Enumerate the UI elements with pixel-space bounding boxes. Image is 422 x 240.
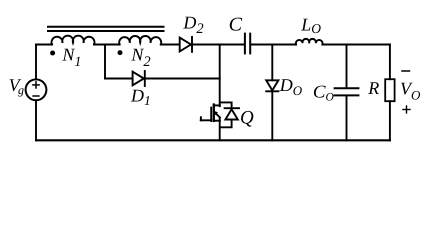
wire D1 to node	[145, 78, 220, 80]
Q gate lead	[201, 119, 212, 121]
wire Lo to right corner	[322, 44, 390, 46]
polarity dot N2	[118, 50, 123, 55]
wire D2 to C	[192, 44, 244, 46]
capacitor C	[244, 34, 246, 54]
wire top-left horizontal	[36, 44, 52, 46]
bottom rail wire	[36, 139, 390, 141]
winding N2	[119, 36, 161, 44]
winding N1	[52, 36, 95, 45]
svg-text:VO: VO	[400, 79, 421, 103]
wire C to Lo	[251, 44, 296, 46]
Q body diode triangle	[225, 109, 237, 119]
diode D1	[133, 72, 144, 86]
svg-text:C: C	[229, 15, 243, 36]
Q source lead	[214, 120, 220, 122]
diode Do	[266, 80, 278, 90]
wire Co branch upper	[346, 45, 348, 88]
inductor Lo	[296, 39, 323, 45]
Q gate bar	[210, 108, 212, 121]
svg-text:D1: D1	[130, 86, 151, 108]
Q body diode bottom lead	[220, 120, 232, 128]
polarity dot N1	[50, 51, 55, 56]
svg-text:Vg: Vg	[9, 75, 24, 97]
node vertical (top row to Q)	[219, 45, 221, 107]
transformer core	[48, 26, 164, 28]
wire Co branch lower	[346, 96, 348, 140]
Q channel bar	[213, 105, 215, 121]
capacitor Co	[335, 87, 359, 89]
Q body diode cathode bar	[225, 107, 239, 109]
wire N2 to D2	[161, 44, 179, 46]
source Vg	[26, 79, 47, 100]
svg-text:Q: Q	[240, 108, 254, 129]
diode D2	[180, 38, 191, 52]
Q gate tick	[200, 117, 202, 120]
Vg plus sign	[33, 84, 39, 86]
svg-text:N1: N1	[61, 45, 81, 70]
wire Do branch lower	[271, 91, 273, 140]
right vertical lower	[389, 101, 391, 140]
svg-text:R: R	[367, 78, 379, 98]
output minus sign	[402, 70, 410, 72]
svg-text:DO: DO	[279, 75, 303, 98]
wire to D1	[105, 78, 132, 80]
wire between windings	[94, 44, 120, 46]
junction vertical below transformer	[104, 45, 106, 79]
svg-text:D2: D2	[182, 13, 203, 38]
transistor Q: top bar	[220, 102, 232, 108]
wire Do branch upper	[271, 45, 273, 81]
Q drain lead	[214, 104, 220, 106]
Q lower vertical to rail	[219, 117, 221, 140]
svg-text:LO: LO	[300, 14, 321, 36]
svg-text:CO: CO	[313, 81, 335, 103]
Vg minus sign	[33, 95, 39, 97]
output plus sign	[403, 109, 410, 111]
right vertical upper	[389, 45, 391, 80]
Q body arrowhead	[213, 111, 218, 116]
wire left vertical lower	[35, 100, 37, 140]
wire left vertical upper	[35, 45, 37, 80]
resistor R	[385, 79, 394, 101]
svg-text:N2: N2	[130, 45, 150, 71]
Q body arrow line	[215, 113, 220, 118]
